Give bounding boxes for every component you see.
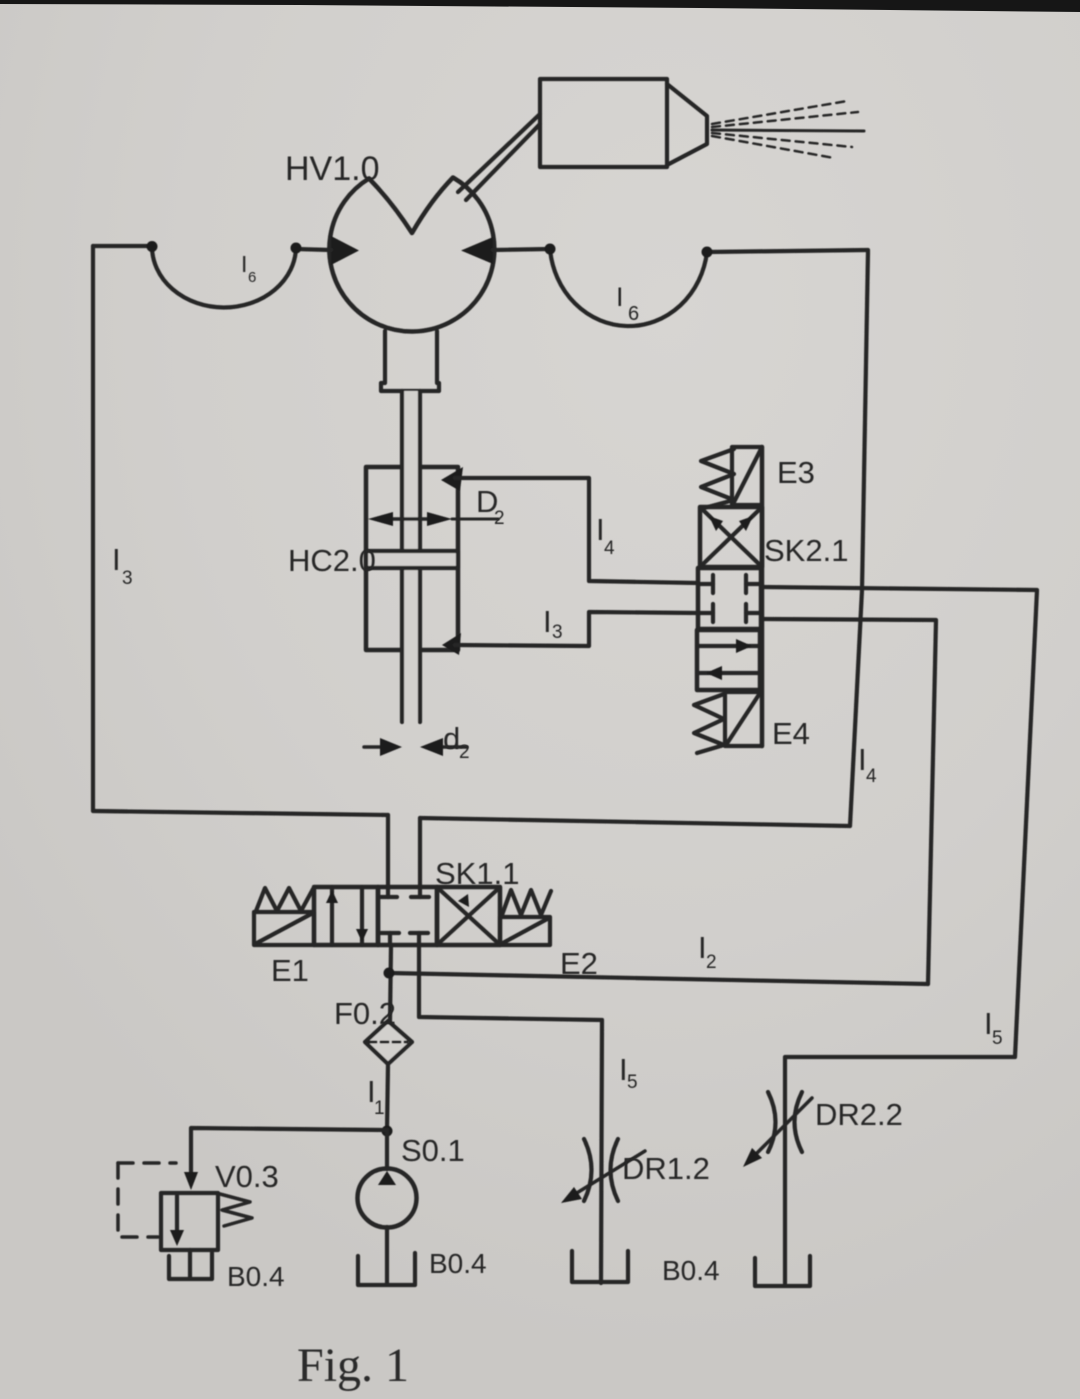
svg-text:B0.4: B0.4 xyxy=(662,1255,720,1286)
svg-text:4: 4 xyxy=(604,538,615,559)
svg-text:d: d xyxy=(443,721,460,756)
svg-text:1: 1 xyxy=(374,1098,385,1119)
svg-text:6: 6 xyxy=(248,269,256,286)
svg-text:I: I xyxy=(112,542,121,577)
svg-text:Fig. 1: Fig. 1 xyxy=(297,1339,409,1392)
svg-text:E3: E3 xyxy=(777,455,815,490)
svg-text:B0.4: B0.4 xyxy=(227,1261,285,1292)
svg-text:I: I xyxy=(616,282,624,312)
svg-text:SK2.1: SK2.1 xyxy=(764,533,848,568)
svg-text:6: 6 xyxy=(628,303,639,325)
svg-text:3: 3 xyxy=(552,622,563,643)
svg-text:E4: E4 xyxy=(772,716,810,751)
svg-text:5: 5 xyxy=(992,1028,1003,1049)
svg-text:5: 5 xyxy=(627,1072,638,1093)
svg-text:2: 2 xyxy=(706,952,717,973)
svg-text:F0.2: F0.2 xyxy=(334,996,396,1031)
svg-text:2: 2 xyxy=(494,508,505,529)
svg-text:DR2.2: DR2.2 xyxy=(815,1097,903,1132)
svg-text:B0.4: B0.4 xyxy=(429,1248,487,1279)
svg-text:S0.1: S0.1 xyxy=(401,1133,465,1168)
svg-text:3: 3 xyxy=(122,568,133,589)
svg-text:E1: E1 xyxy=(271,953,309,988)
svg-text:HV1.0: HV1.0 xyxy=(285,150,380,188)
svg-text:4: 4 xyxy=(866,766,877,787)
svg-text:HC2.0: HC2.0 xyxy=(288,543,376,578)
svg-text:DR1.2: DR1.2 xyxy=(622,1151,710,1186)
svg-text:I: I xyxy=(241,251,247,277)
svg-text:I: I xyxy=(543,604,552,639)
svg-text:2: 2 xyxy=(459,742,470,763)
svg-text:SK1.1: SK1.1 xyxy=(435,856,519,891)
svg-text:E2: E2 xyxy=(560,946,598,981)
svg-text:V0.3: V0.3 xyxy=(215,1159,279,1194)
